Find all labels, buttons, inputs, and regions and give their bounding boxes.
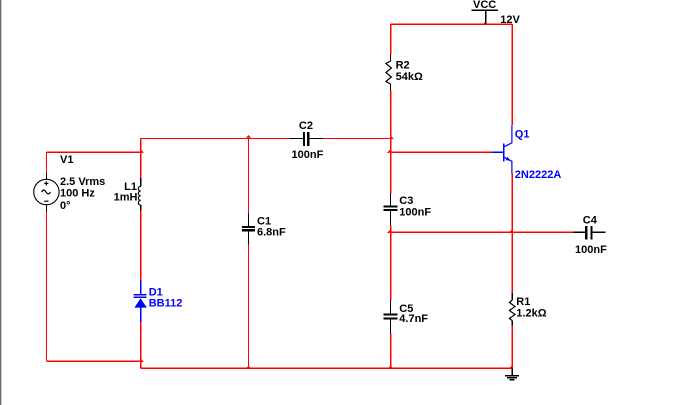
svg-text:C1: C1: [257, 215, 271, 227]
svg-text:100 Hz: 100 Hz: [60, 188, 95, 200]
svg-text:6.8nF: 6.8nF: [257, 227, 286, 239]
svg-text:VCC: VCC: [473, 0, 496, 11]
svg-text:C3: C3: [399, 195, 413, 207]
svg-text:1mH: 1mH: [114, 191, 138, 203]
svg-text:C4: C4: [583, 215, 598, 227]
svg-text:Q1: Q1: [515, 129, 530, 141]
svg-text:2.5 Vrms: 2.5 Vrms: [60, 176, 105, 188]
svg-text:0°: 0°: [60, 200, 71, 212]
svg-text:R1: R1: [516, 296, 530, 308]
svg-text:V1: V1: [60, 154, 73, 166]
svg-text:100nF: 100nF: [292, 149, 324, 161]
svg-text:2N2222A: 2N2222A: [515, 169, 562, 181]
svg-text:R2: R2: [396, 60, 410, 72]
svg-text:100nF: 100nF: [575, 244, 607, 256]
svg-text:C2: C2: [299, 120, 313, 132]
svg-text:12V: 12V: [500, 14, 520, 26]
svg-text:100nF: 100nF: [399, 207, 431, 219]
svg-text:4.7nF: 4.7nF: [399, 313, 428, 325]
svg-text:1.2kΩ: 1.2kΩ: [516, 307, 546, 319]
svg-text:54kΩ: 54kΩ: [396, 71, 423, 83]
svg-text:BB112: BB112: [149, 297, 183, 309]
